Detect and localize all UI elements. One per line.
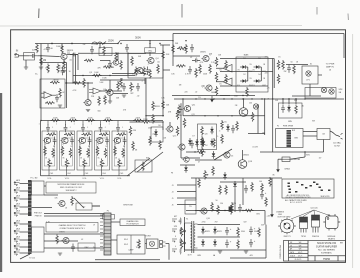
svg-text:USED ON MODEL 152 ONLY: USED ON MODEL 152 ONLY bbox=[60, 187, 83, 189]
transistor Q16 bbox=[199, 208, 207, 214]
svg-text:D5: D5 bbox=[224, 122, 226, 124]
strip 5 inner frame bbox=[114, 138, 125, 166]
svg-text:J4: J4 bbox=[172, 192, 174, 194]
resistor R58b bbox=[261, 183, 264, 193]
strip 5 resistor top bbox=[117, 133, 127, 136]
diode D5 bbox=[226, 124, 230, 132]
svg-text:Q12 Q15: Q12 Q15 bbox=[310, 208, 317, 210]
strip 1 capacitor bbox=[46, 124, 50, 132]
tremolo box outline bbox=[128, 54, 163, 79]
wire top right to speaker circles bbox=[318, 74, 322, 76]
strip 2 resistor top bbox=[64, 133, 74, 136]
svg-text:220K: 220K bbox=[88, 117, 93, 119]
capacitor C11 bbox=[287, 65, 291, 73]
svg-text:BOTTOM VIEW: BOTTOM VIEW bbox=[278, 217, 291, 219]
rail dot x100 bbox=[99, 43, 100, 44]
wire matrix to pair top bbox=[268, 58, 274, 60]
driver triangle U2 bbox=[223, 65, 232, 73]
transistor Q6 bbox=[105, 89, 113, 95]
svg-text:22K: 22K bbox=[32, 50, 36, 52]
resistor R44 (bus feed 5) bbox=[133, 119, 143, 122]
ground in module bbox=[58, 105, 62, 107]
bias network box bbox=[236, 57, 268, 92]
diode D6c bbox=[212, 151, 216, 159]
aux column wire bbox=[184, 217, 186, 252]
wire B+ rail jog bbox=[118, 41, 173, 44]
wire bus x173 down bbox=[172, 41, 174, 66]
op-amp buffer A1 bbox=[41, 92, 56, 98]
wire Q12 stem bbox=[243, 99, 245, 108]
strip 4 capacitor 2 bbox=[105, 137, 109, 145]
junction y152 bbox=[304, 151, 305, 152]
jack wire 2 bbox=[20, 183, 29, 185]
bus dot a bbox=[145, 115, 146, 116]
wire stage3 link bbox=[113, 93, 128, 95]
strip 2 capacitor 2 bbox=[70, 137, 74, 145]
tap dot a bbox=[282, 98, 283, 99]
resistor R75 bbox=[176, 65, 186, 68]
junction y75 a bbox=[82, 75, 83, 76]
ps left wire bbox=[184, 223, 186, 250]
panel2 wire c bbox=[44, 247, 104, 249]
svg-text:.02: .02 bbox=[81, 239, 83, 241]
junction A x183 bbox=[182, 98, 183, 99]
resistor R81 bbox=[219, 185, 222, 195]
jack J4 bbox=[14, 197, 20, 201]
strip 4 capacitor bbox=[99, 124, 103, 132]
svg-text:1M: 1M bbox=[43, 59, 46, 62]
svg-text:.1: .1 bbox=[104, 127, 105, 129]
aux resistor 4 bbox=[180, 248, 182, 255]
svg-text:220K: 220K bbox=[135, 117, 140, 119]
wire hop arc bbox=[135, 70, 141, 73]
U3 out wire bbox=[216, 81, 223, 83]
svg-text:IN: IN bbox=[16, 50, 19, 53]
svg-text:SW: SW bbox=[146, 157, 149, 159]
breaker box CB bbox=[317, 129, 330, 140]
svg-text:.1: .1 bbox=[69, 127, 70, 129]
wirenut a bbox=[184, 230, 186, 232]
resistor R17 bbox=[117, 81, 120, 91]
jack wire 4 bbox=[20, 198, 29, 200]
diode D14 bbox=[213, 239, 217, 247]
jack J11 bbox=[14, 251, 20, 255]
resistor R62 bbox=[71, 196, 74, 206]
conn top box bbox=[103, 215, 115, 220]
railA dot x289 bbox=[288, 98, 289, 99]
wirenut b bbox=[184, 242, 186, 244]
svg-text:220: 220 bbox=[185, 92, 188, 94]
strip 2 inner frame bbox=[62, 138, 73, 166]
ground under shield bbox=[24, 67, 28, 69]
svg-text:1: 1 bbox=[56, 123, 57, 125]
resistor R56 bbox=[213, 138, 216, 148]
svg-text:E.C.O. 4-12-75: E.C.O. 4-12-75 bbox=[290, 202, 302, 204]
svg-text:.05: .05 bbox=[69, 60, 72, 62]
strip 3 bottom stem bbox=[83, 168, 85, 176]
svg-text:CH5: CH5 bbox=[120, 173, 123, 175]
svg-text:2N3773: 2N3773 bbox=[283, 236, 291, 238]
transistor Q14 bbox=[177, 144, 185, 150]
resistor R7 bbox=[57, 64, 60, 74]
svg-text:Q5: Q5 bbox=[157, 61, 159, 63]
svg-text:2N3391: 2N3391 bbox=[67, 50, 74, 52]
title col line 2 bbox=[307, 241, 309, 262]
svg-text:2N3391: 2N3391 bbox=[211, 92, 217, 94]
svg-text:220K: 220K bbox=[53, 117, 58, 119]
resistor R6 bbox=[47, 64, 50, 74]
capacitor C17 bbox=[249, 239, 253, 247]
wire Q6 emitter bbox=[109, 96, 111, 101]
wire label box to circuit bbox=[149, 52, 151, 56]
terminal bar upper bbox=[28, 180, 32, 216]
mixer diagonal 1 bbox=[137, 152, 163, 172]
svg-text:P2: P2 bbox=[277, 126, 279, 128]
svg-text:15K: 15K bbox=[166, 54, 170, 56]
wire fuse down bbox=[277, 159, 279, 166]
svg-text:Q13: Q13 bbox=[173, 135, 176, 137]
diode D11 bbox=[201, 227, 205, 235]
svg-text:1W: 1W bbox=[262, 133, 265, 135]
diode D6 bbox=[154, 129, 158, 137]
vertical x183 bbox=[182, 99, 184, 116]
TO-220 package B bbox=[312, 215, 320, 233]
wire jack to C1 bbox=[19, 55, 30, 57]
resistor R57b bbox=[231, 202, 234, 212]
bus dot b bbox=[162, 115, 163, 116]
wire x235 down bbox=[234, 189, 236, 212]
resistor R11 bbox=[104, 90, 114, 93]
panel bottom diag bbox=[20, 254, 30, 259]
diode D13 bbox=[201, 239, 205, 247]
strip 1 transistor bbox=[43, 137, 51, 143]
capacitor C7 bbox=[146, 67, 150, 75]
aux jack 3 bbox=[172, 239, 177, 242]
svg-text:WH: WH bbox=[299, 245, 302, 247]
ps dot a bbox=[224, 210, 225, 211]
capacitor C19 bbox=[281, 105, 285, 113]
wire stage3 rail bbox=[100, 79, 145, 81]
resistor R21 bbox=[199, 64, 202, 74]
resistor R35 bbox=[293, 65, 296, 75]
rail B left stub bbox=[146, 115, 164, 117]
jack J3 bbox=[14, 189, 20, 193]
tap drop a bbox=[282, 99, 284, 104]
panel1 comp box bbox=[76, 203, 92, 210]
capacitor C18 bbox=[231, 125, 235, 133]
junction x173 rail bbox=[172, 40, 173, 41]
svg-text:VOL: VOL bbox=[47, 178, 52, 180]
railA dot x224 bbox=[223, 98, 224, 99]
resistor R86 bbox=[180, 227, 183, 237]
resistor R40d bbox=[221, 134, 224, 144]
capacitor C9 bbox=[136, 83, 140, 91]
svg-text:WH: WH bbox=[299, 242, 302, 244]
transistor Q5 (tremolo) bbox=[135, 67, 143, 73]
railA dot x262 bbox=[261, 98, 262, 99]
notes box bbox=[282, 179, 334, 198]
svg-text:VOL: VOL bbox=[65, 178, 70, 180]
mixer drop x163 bbox=[162, 122, 164, 130]
svg-text:0.5 2W: 0.5 2W bbox=[252, 147, 258, 149]
diode D8 on rail bbox=[223, 172, 227, 180]
speaker box bbox=[147, 239, 159, 249]
resistor R68 bbox=[237, 227, 240, 237]
switch box FS bbox=[135, 160, 152, 172]
wire x323 drop bbox=[323, 140, 325, 153]
svg-text:120: 120 bbox=[205, 133, 208, 135]
capacitor C2 (rail filter) bbox=[46, 44, 50, 52]
title row line 2 bbox=[289, 246, 309, 248]
svg-text:1: 1 bbox=[91, 123, 92, 125]
resistor R85 bbox=[196, 151, 206, 154]
plug pair bbox=[160, 241, 166, 248]
capacitor C12 + bbox=[260, 191, 264, 199]
wire x243 down bbox=[242, 178, 244, 205]
resistor R40b (bias) bbox=[201, 138, 204, 148]
svg-text:2N3391: 2N3391 bbox=[154, 106, 160, 108]
svg-text:100K: 100K bbox=[59, 67, 64, 69]
svg-text:4997: 4997 bbox=[262, 85, 266, 87]
svg-text:150K: 150K bbox=[102, 77, 107, 79]
aux jack 4 bbox=[172, 249, 177, 252]
svg-text:+75: +75 bbox=[267, 88, 270, 90]
svg-text:470K: 470K bbox=[45, 67, 50, 69]
svg-text:PRE OUT: PRE OUT bbox=[34, 213, 43, 215]
resistor R22 bbox=[209, 64, 212, 74]
resistor R23 bbox=[215, 57, 218, 67]
svg-text:.5: .5 bbox=[141, 80, 143, 82]
title row line 3 bbox=[289, 249, 309, 251]
terminal bar lower bbox=[28, 221, 32, 254]
resistor R24 bbox=[215, 72, 218, 82]
svg-text:CONNECTS HERE SEE NOTE 3: CONNECTS HERE SEE NOTE 3 bbox=[59, 228, 84, 230]
capacitor C21 bbox=[108, 60, 112, 68]
jack wire 5 bbox=[20, 206, 29, 208]
transistor Q11 bbox=[183, 105, 191, 111]
resistor R14 bbox=[135, 67, 138, 77]
wire x181 column bbox=[180, 103, 182, 158]
plug drop wire bbox=[168, 244, 170, 260]
capacitor C1 (series input) bbox=[29, 54, 37, 58]
wire rail drop to Q1 collector bbox=[61, 44, 63, 50]
wire stage2 top bbox=[41, 62, 67, 64]
svg-text:K1: K1 bbox=[310, 63, 312, 65]
svg-text:1: 1 bbox=[109, 123, 110, 125]
mini box B bbox=[99, 48, 112, 56]
svg-text:UNLESS OTHERWISE NOTED: UNLESS OTHERWISE NOTED bbox=[285, 197, 311, 199]
ps bus 3 bbox=[185, 249, 266, 251]
wire Q1 emitter bbox=[63, 60, 65, 64]
capacitor C26 bbox=[190, 140, 194, 148]
ground under Q1 bbox=[62, 71, 66, 73]
title row line 5 bbox=[289, 256, 309, 258]
svg-text:2N6254: 2N6254 bbox=[312, 236, 320, 238]
svg-text:150: 150 bbox=[220, 203, 223, 205]
wire x305 drop bbox=[304, 152, 306, 157]
resistor R72 bbox=[84, 59, 94, 62]
capacitor C20 bbox=[90, 46, 94, 54]
wire y73.5 a bbox=[112, 73, 135, 75]
junction bus x41 bbox=[40, 120, 41, 121]
railA dot x305 bbox=[304, 98, 305, 99]
strip 1 input drop wire bbox=[47, 121, 49, 125]
svg-text:BIAS: BIAS bbox=[244, 54, 249, 57]
resistor R4 (collector load Q1) bbox=[61, 45, 64, 55]
svg-text:PWR XFMR: PWR XFMR bbox=[283, 126, 294, 128]
svg-text:R-19-75: R-19-75 bbox=[295, 259, 302, 261]
strip 4 transistor bbox=[95, 137, 103, 143]
wire x118 down bbox=[117, 53, 119, 60]
strip 3 capacitor bbox=[81, 124, 85, 132]
extra wire a bbox=[100, 60, 110, 62]
svg-text:300V: 300V bbox=[135, 36, 141, 40]
resistor R59 bbox=[269, 177, 272, 187]
svg-text:LAMP: LAMP bbox=[129, 249, 135, 252]
svg-text:100: 100 bbox=[249, 103, 252, 105]
svg-text:WH: WH bbox=[299, 249, 302, 251]
svg-text:100: 100 bbox=[259, 181, 262, 183]
jack J7 bbox=[14, 222, 20, 226]
junction rail at R3 bbox=[71, 43, 72, 44]
svg-text:914: 914 bbox=[237, 85, 240, 87]
resistor R15 bbox=[143, 67, 146, 77]
panel box lower bbox=[32, 227, 45, 252]
svg-text:J10: J10 bbox=[93, 247, 96, 249]
resistor R52 bbox=[176, 126, 179, 136]
svg-text:D7: D7 bbox=[192, 135, 194, 137]
ps x265 drop bbox=[264, 211, 266, 225]
ground under R1 bbox=[39, 67, 43, 69]
svg-text:-75: -75 bbox=[267, 99, 270, 101]
ps bus 1 bbox=[198, 224, 241, 226]
resistor R70a bbox=[152, 101, 155, 111]
svg-text:CH4: CH4 bbox=[102, 173, 105, 175]
shield box around J1 bbox=[24, 53, 35, 60]
title block outer bbox=[284, 241, 346, 262]
ladder stub 4 bbox=[177, 204, 196, 206]
resistor R10 bbox=[50, 81, 60, 84]
strip 3 capacitor 2 bbox=[88, 137, 92, 145]
resistor R70 bbox=[258, 228, 261, 238]
U2 out wire bbox=[216, 67, 223, 69]
wire fuse left bbox=[278, 158, 282, 160]
svg-text:.3: .3 bbox=[219, 131, 221, 133]
ray lines bbox=[291, 210, 331, 219]
mixer diagonal 2 bbox=[127, 158, 150, 176]
resistor R55 bbox=[201, 147, 204, 157]
svg-text:50: 50 bbox=[216, 200, 218, 202]
strip 2 transistor bbox=[60, 137, 68, 143]
svg-text:VOL: VOL bbox=[117, 178, 122, 180]
resistor R5 (emitter Q1) bbox=[63, 60, 66, 70]
diode D2 bbox=[240, 79, 248, 83]
mixer bus 2 bbox=[151, 121, 163, 123]
ground ps1 bbox=[218, 251, 222, 253]
svg-text:.5: .5 bbox=[217, 136, 219, 138]
wire box feed bbox=[149, 41, 151, 48]
ladder stub 3 bbox=[177, 197, 196, 199]
strip bottom bus bbox=[41, 175, 131, 177]
svg-text:LEVEL: LEVEL bbox=[177, 115, 183, 117]
capacitor C27 bbox=[238, 204, 242, 212]
transistor Q21 bbox=[112, 60, 119, 66]
capacitor C25 bbox=[244, 185, 248, 193]
wire y152 bbox=[260, 151, 324, 153]
edge connector P1 bbox=[104, 213, 111, 255]
diode D6b bbox=[210, 139, 214, 147]
svg-text:CHANNEL SELECT FOOTSWITCH: CHANNEL SELECT FOOTSWITCH bbox=[59, 224, 87, 227]
resistor R61 bbox=[295, 105, 298, 115]
ground panel2 bbox=[58, 253, 62, 255]
capacitor C10 bbox=[192, 59, 200, 63]
wire Q1 base link bbox=[41, 55, 59, 58]
diode D6a bbox=[210, 127, 214, 135]
wire matrix bottom bbox=[220, 85, 268, 87]
svg-text:SEE NOTE: SEE NOTE bbox=[320, 196, 330, 198]
svg-text:TREM: TREM bbox=[136, 247, 141, 249]
panel1 note box bbox=[46, 182, 96, 193]
junction A x264 bbox=[264, 98, 265, 99]
control divider bbox=[130, 235, 132, 254]
svg-text:.1: .1 bbox=[52, 127, 53, 129]
wire bus x41 down bbox=[40, 44, 42, 121]
svg-text:.33: .33 bbox=[231, 156, 233, 158]
wire top bus bbox=[173, 33, 344, 35]
ps bus 2 bbox=[198, 236, 241, 238]
resistor R83 bbox=[198, 178, 201, 188]
wire matrix mid bbox=[220, 71, 268, 73]
resistor R87 bbox=[180, 239, 183, 249]
wire y73.5 b bbox=[141, 73, 146, 75]
junction at rail 150 bbox=[149, 40, 150, 41]
AC cord squiggle bbox=[330, 131, 338, 136]
junction mix bbox=[162, 121, 163, 122]
resistor R45 bbox=[129, 126, 132, 136]
svg-text:1: 1 bbox=[39, 123, 40, 125]
railA dot x243 bbox=[242, 98, 243, 99]
rail dot x150 bbox=[149, 43, 150, 44]
wire y158 link bbox=[181, 157, 200, 159]
wire ground return line bbox=[172, 95, 230, 97]
strip 5 resistor left bbox=[114, 146, 117, 156]
strip bus y120.5 bbox=[41, 120, 163, 122]
resistor R66 bbox=[230, 205, 233, 215]
svg-text:1M: 1M bbox=[133, 130, 136, 132]
transistor Q18 bbox=[61, 237, 69, 243]
resistor R46 bbox=[132, 141, 135, 151]
capacitor C3 (coupling) bbox=[70, 53, 78, 57]
svg-text:J5: J5 bbox=[172, 198, 174, 200]
panel1 wire b bbox=[44, 194, 58, 196]
input jack J1 bbox=[15, 53, 19, 57]
diode D10 bbox=[287, 105, 291, 113]
svg-text:D1: D1 bbox=[243, 58, 245, 60]
resistor R77 bbox=[185, 44, 188, 54]
capacitor C14 bbox=[225, 227, 229, 235]
jack J6 bbox=[14, 212, 20, 216]
strip 5 capacitor 2 bbox=[123, 137, 127, 145]
resistor R67 bbox=[244, 209, 254, 212]
resistor R70b bbox=[152, 114, 155, 124]
ps dot b bbox=[242, 210, 243, 211]
svg-text:SEE SHEET 2: SEE SHEET 2 bbox=[66, 190, 77, 192]
aux jack 1 bbox=[172, 219, 177, 222]
ground ps2 bbox=[244, 251, 248, 253]
junction A x243 bbox=[243, 98, 244, 99]
svg-text:TIP41: TIP41 bbox=[301, 236, 307, 238]
wire to Q7 stage bbox=[173, 55, 200, 57]
